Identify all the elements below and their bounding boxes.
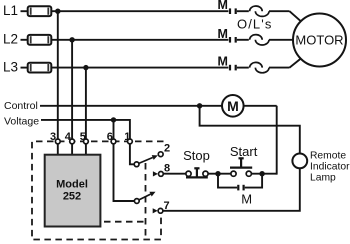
wire L2 to contact M [51,39,228,41]
wire voltage to terminal 6 [113,120,115,139]
wire L2 lead [21,39,28,41]
label L3 [3,60,18,75]
contact M1 [230,8,236,14]
wire L1 drop to terminal 3 [57,11,59,139]
wire L1 lead [21,10,28,12]
wire terminal 5 to model box [85,144,87,155]
label terminal 4 [65,131,72,143]
wire L1 to contact M [51,10,228,12]
label O/L's [237,17,272,32]
wire L3 lead [21,67,28,69]
svg-text:L3: L3 [3,60,18,75]
contact 7 [158,208,163,213]
svg-text:M: M [218,55,228,69]
overload heater OL3 [250,62,269,72]
dashed inner partition [104,163,147,240]
wire contact2 to overload2 [237,39,249,41]
contact 7 arrow [153,208,158,213]
node L1 junction [55,9,60,14]
wire start to M drop [251,173,276,175]
svg-text:Voltage: Voltage [4,116,39,128]
motor M1 [293,14,346,67]
label Control [4,100,38,112]
wire overload2 to motor [269,39,293,41]
svg-text:L2: L2 [3,32,18,47]
svg-text:M: M [218,27,228,41]
contact M3 [230,65,236,71]
svg-text:Stop: Stop [183,148,210,163]
timer module Model 252 [45,155,101,227]
dashed enclosure outline [32,141,164,239]
pushbutton Stop (NC) [186,168,208,177]
svg-text:Model: Model [56,179,88,191]
wire terminal 3 to model box [57,144,59,155]
label L1 [3,3,18,18]
wire lamp branch [200,106,300,154]
node voltage junction [111,117,116,122]
label M (contact 3) [218,55,228,69]
terminal 3 [55,139,60,144]
node control junction [197,103,202,108]
overload heater OL2 [250,35,269,45]
pushbutton Start (NO) [230,158,252,176]
wire seal-in branch left [218,174,237,188]
label M (contact 2) [218,27,228,41]
label terminal 6 [107,131,113,143]
svg-text:O/L's: O/L's [237,17,272,32]
svg-text:Lamp: Lamp [310,173,336,184]
label Stop [183,148,210,163]
terminal 6 [111,139,116,144]
label Voltage [4,116,39,128]
wire L2 drop to terminal 4 [71,40,73,139]
overload heater OL1 [250,6,269,16]
label terminal 3 [50,131,56,143]
label M aux [241,192,252,207]
svg-text:M: M [227,98,239,114]
wire stop to start [208,173,231,175]
terminal 1 [127,139,132,144]
label terminal 1 [124,131,130,143]
fuse L1 [28,6,52,16]
label M (contact 1) [218,0,228,12]
contact 2 [158,152,163,157]
contact 8 arrow [153,171,158,176]
wire terminal 1 to switch A pivot [130,144,134,165]
svg-text:M: M [241,192,252,207]
wire contact3 to overload3 [237,67,249,69]
label 2 [164,143,170,155]
wire control line [40,105,222,107]
label 7 [164,200,170,212]
fuse L3 [28,63,52,73]
fuse L2 [28,35,52,45]
terminal 4 [70,139,75,144]
wire lamp to contact 7 [163,168,300,211]
node seal-in left [215,171,220,176]
switch B pivot [134,199,139,204]
svg-text:8: 8 [164,163,170,175]
wire overload3 to motor [269,58,301,67]
svg-text:Indicator: Indicator [310,162,350,173]
svg-text:MOTOR: MOTOR [295,33,343,48]
lamp pilot [292,154,307,169]
wire L3 drop to terminal 5 [85,68,87,140]
label 8 [164,163,170,175]
wire voltage line [41,120,130,139]
svg-text:L1: L1 [3,3,18,18]
svg-text:Remote: Remote [310,151,346,162]
label Start [230,144,258,159]
contact M2 [230,37,236,43]
label terminal 5 [80,131,86,143]
wire terminal 6 to switch B pivot [114,144,135,201]
contact 8 [159,172,164,177]
wire terminal 4 to model box [71,144,73,155]
switch A pivot [134,162,139,167]
coil M [222,95,244,117]
svg-text:M: M [218,0,228,12]
label Remote Indicator Lamp [310,151,350,184]
svg-text:Control: Control [4,100,38,112]
node seal-in right [259,171,264,176]
wire coil to right drop [244,106,277,175]
switch B blade [139,192,156,200]
contact M aux [238,185,243,191]
wire contact 8 to stop [163,173,186,175]
svg-text:252: 252 [63,191,81,203]
terminal 5 [84,139,89,144]
wire seal-in branch right [245,174,262,188]
label L2 [3,32,18,47]
wire L3 to contact M [51,67,228,69]
svg-text:2: 2 [164,143,170,155]
svg-text:Start: Start [230,144,258,159]
wire contact1 to overload1 [237,10,249,12]
wire overload1 to motor [269,11,301,21]
switch A blade [139,155,158,163]
node L2 junction [69,37,74,42]
node L3 junction [83,65,88,70]
